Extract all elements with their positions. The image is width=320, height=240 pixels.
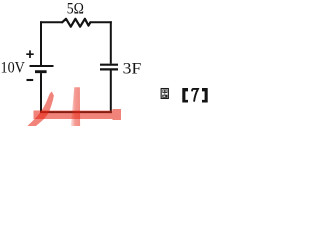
wire right upper segment: [110, 21, 112, 63]
battery plus sign: [26, 50, 33, 58]
wire left upper segment: [40, 21, 42, 65]
wire top-left segment: [40, 21, 62, 23]
svg-text:5Ω: 5Ω: [67, 1, 84, 18]
figure caption left bracket 【: [182, 88, 188, 103]
wire top-right segment: [90, 21, 112, 23]
figure caption glyph 圖 (drawn): [161, 89, 168, 99]
battery V1 negative plate (short thick): [35, 70, 47, 73]
capacitor C top plate: [100, 64, 118, 66]
wire bottom segment: [40, 111, 112, 113]
wire right lower segment: [110, 71, 112, 114]
capacitor C bottom plate: [100, 68, 118, 70]
figure caption right bracket 】: [202, 88, 208, 103]
watermark horizontal stroke: [34, 109, 122, 120]
watermark diagonal stroke: [27, 92, 54, 127]
watermark vertical stroke: [0, 0, 1, 1]
wire left lower segment: [40, 73, 42, 113]
battery V1 positive plate (long): [30, 65, 54, 67]
battery minus sign: [27, 79, 34, 81]
resistor R zigzag: [62, 19, 90, 27]
svg-text:10V: 10V: [1, 60, 26, 77]
svg-text:3F: 3F: [123, 60, 142, 77]
figure caption digit 7: [192, 89, 198, 101]
